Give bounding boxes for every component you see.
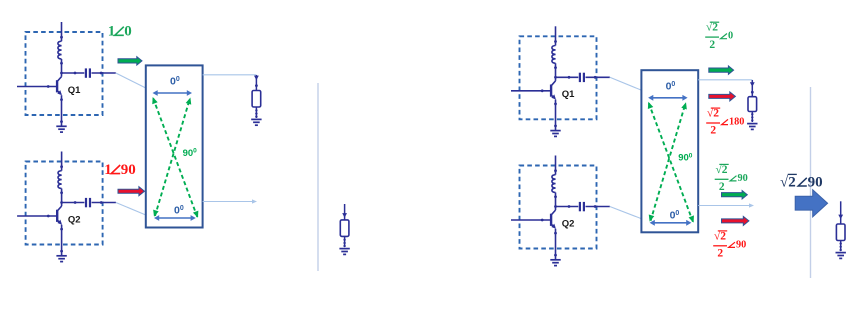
svg-text:0: 0 (124, 24, 132, 40)
svg-text:90: 90 (738, 173, 748, 184)
svg-text:√2: √2 (780, 174, 796, 190)
svg-text:1: 1 (108, 24, 116, 40)
svg-text:Q2: Q2 (562, 218, 575, 229)
svg-text:90: 90 (121, 162, 136, 178)
svg-text:90: 90 (736, 239, 746, 250)
svg-text:1: 1 (104, 162, 112, 178)
svg-text:2: 2 (719, 181, 725, 193)
svg-text:2: 2 (709, 39, 715, 51)
svg-text:Q1: Q1 (68, 85, 81, 96)
svg-text:90: 90 (808, 174, 823, 190)
svg-text:180: 180 (729, 117, 744, 128)
svg-text:2: 2 (710, 125, 716, 137)
svg-text:2: 2 (717, 248, 723, 260)
svg-text:Q1: Q1 (562, 89, 575, 100)
svg-text:Q2: Q2 (68, 214, 81, 225)
svg-text:0: 0 (728, 31, 733, 42)
